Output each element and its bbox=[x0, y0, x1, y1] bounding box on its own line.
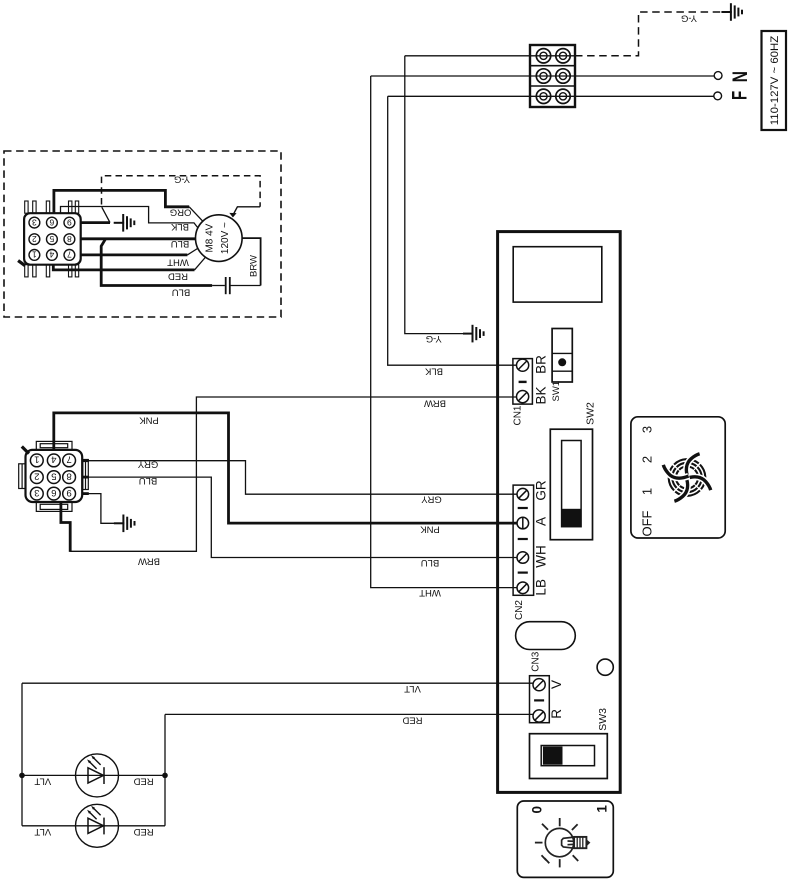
svg-text:5: 5 bbox=[49, 234, 54, 244]
svg-text:ORG: ORG bbox=[170, 207, 192, 218]
svg-text:WHT: WHT bbox=[167, 256, 189, 267]
svg-text:GRY: GRY bbox=[421, 494, 442, 505]
svg-text:VLT: VLT bbox=[34, 826, 51, 837]
svg-text:CN3: CN3 bbox=[531, 651, 542, 671]
svg-text:F: F bbox=[729, 91, 752, 100]
svg-text:SW1: SW1 bbox=[551, 381, 562, 402]
svg-text:BR: BR bbox=[533, 355, 548, 374]
svg-text:6: 6 bbox=[49, 217, 54, 227]
svg-text:CN1: CN1 bbox=[513, 405, 524, 425]
svg-text:BLU: BLU bbox=[171, 238, 190, 249]
svg-text:2: 2 bbox=[32, 234, 37, 244]
svg-text:RED: RED bbox=[133, 776, 153, 787]
svg-text:BK: BK bbox=[533, 386, 548, 404]
svg-text:7: 7 bbox=[67, 250, 72, 260]
svg-text:BLU: BLU bbox=[172, 286, 191, 297]
svg-text:9: 9 bbox=[67, 217, 72, 227]
svg-text:1: 1 bbox=[32, 250, 37, 260]
svg-text:BRW: BRW bbox=[138, 555, 160, 566]
svg-text:OFF: OFF bbox=[640, 510, 655, 536]
svg-text:V: V bbox=[549, 680, 564, 689]
svg-text:R: R bbox=[549, 709, 564, 719]
svg-text:GR: GR bbox=[533, 480, 548, 501]
svg-text:SW2: SW2 bbox=[584, 402, 596, 425]
svg-text:Y-G: Y-G bbox=[681, 12, 697, 23]
svg-text:0: 0 bbox=[529, 806, 544, 814]
svg-text:3: 3 bbox=[34, 487, 39, 498]
svg-text:Y-G: Y-G bbox=[426, 333, 442, 344]
svg-text:BLU: BLU bbox=[421, 557, 440, 568]
svg-text:BLK: BLK bbox=[424, 365, 443, 376]
svg-text:VLT: VLT bbox=[404, 683, 421, 694]
svg-text:RED: RED bbox=[168, 270, 188, 281]
svg-text:1: 1 bbox=[640, 488, 655, 495]
svg-text:GRY: GRY bbox=[137, 459, 158, 470]
svg-text:PNK: PNK bbox=[139, 414, 159, 425]
svg-text:4: 4 bbox=[49, 250, 54, 260]
svg-text:6: 6 bbox=[51, 487, 56, 498]
svg-text:WH: WH bbox=[534, 545, 549, 568]
svg-text:BRW: BRW bbox=[424, 397, 446, 408]
svg-text:2: 2 bbox=[34, 470, 39, 481]
svg-text:7: 7 bbox=[66, 454, 71, 465]
svg-text:BRW: BRW bbox=[249, 255, 260, 277]
svg-text:WHT: WHT bbox=[419, 587, 441, 598]
svg-text:RED: RED bbox=[402, 715, 422, 726]
svg-text:RED: RED bbox=[133, 826, 153, 837]
svg-text:PNK: PNK bbox=[420, 524, 440, 535]
svg-text:VLT: VLT bbox=[34, 776, 51, 787]
svg-text:LB: LB bbox=[534, 579, 549, 596]
svg-text:2: 2 bbox=[640, 456, 655, 463]
svg-text:SW3: SW3 bbox=[597, 708, 609, 731]
svg-text:110-127V ~ 60HZ: 110-127V ~ 60HZ bbox=[769, 36, 781, 125]
svg-text:4: 4 bbox=[51, 454, 56, 465]
svg-text:A: A bbox=[533, 517, 548, 526]
svg-text:BLK: BLK bbox=[170, 221, 189, 232]
svg-text:1: 1 bbox=[34, 454, 39, 465]
svg-text:3: 3 bbox=[640, 426, 655, 433]
svg-text:8: 8 bbox=[66, 470, 71, 481]
svg-text:BLU: BLU bbox=[139, 475, 158, 486]
svg-text:120V ~: 120V ~ bbox=[220, 222, 231, 254]
svg-text:CN2: CN2 bbox=[514, 600, 525, 620]
svg-text:Y-G: Y-G bbox=[174, 173, 190, 184]
svg-text:8: 8 bbox=[67, 234, 72, 244]
svg-text:3: 3 bbox=[32, 217, 37, 227]
svg-text:N: N bbox=[729, 71, 752, 82]
svg-text:M8 4V: M8 4V bbox=[205, 223, 216, 252]
svg-text:9: 9 bbox=[66, 487, 71, 498]
svg-text:5: 5 bbox=[51, 470, 56, 481]
svg-text:1: 1 bbox=[595, 805, 610, 813]
